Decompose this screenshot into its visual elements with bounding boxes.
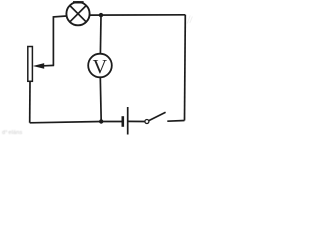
rheostat R body (28, 47, 33, 82)
lamp top contact bar (73, 1, 84, 3)
svg-text:V: V (93, 56, 108, 78)
lamp cross diagonal 2 (70, 6, 86, 22)
wire right side vertical (184, 15, 187, 121)
watermark text bottom-left (2, 130, 22, 136)
wire bottom-right to switch (167, 120, 184, 123)
switch S hinge circle (145, 120, 149, 124)
wire top-left corner to lamp (53, 16, 66, 66)
lamp cross diagonal 1 (70, 6, 86, 22)
wire switch to battery (128, 120, 145, 122)
battery positive plate (long thin) (127, 107, 129, 135)
wire voltmeter branch upper (99, 15, 102, 54)
scan artifact marks near top-right corner (187, 16, 192, 24)
lamp L1 (66, 2, 89, 25)
wire lamp to top-right corner (90, 14, 186, 16)
node junction dot bottom (voltmeter return) (99, 119, 103, 123)
wire voltmeter branch lower (99, 77, 102, 121)
wire battery to bottom-left corner (30, 122, 123, 123)
rheostat wiper arrowhead (33, 63, 44, 69)
rheostat wiper arm wire (44, 64, 55, 66)
voltmeter V1 body (88, 54, 112, 78)
rheostat lower lead wire (29, 81, 31, 123)
node junction dot top (lamp / voltmeter tap) (99, 13, 103, 17)
switch S blade (149, 112, 166, 120)
battery negative plate (short thick) (122, 116, 125, 127)
